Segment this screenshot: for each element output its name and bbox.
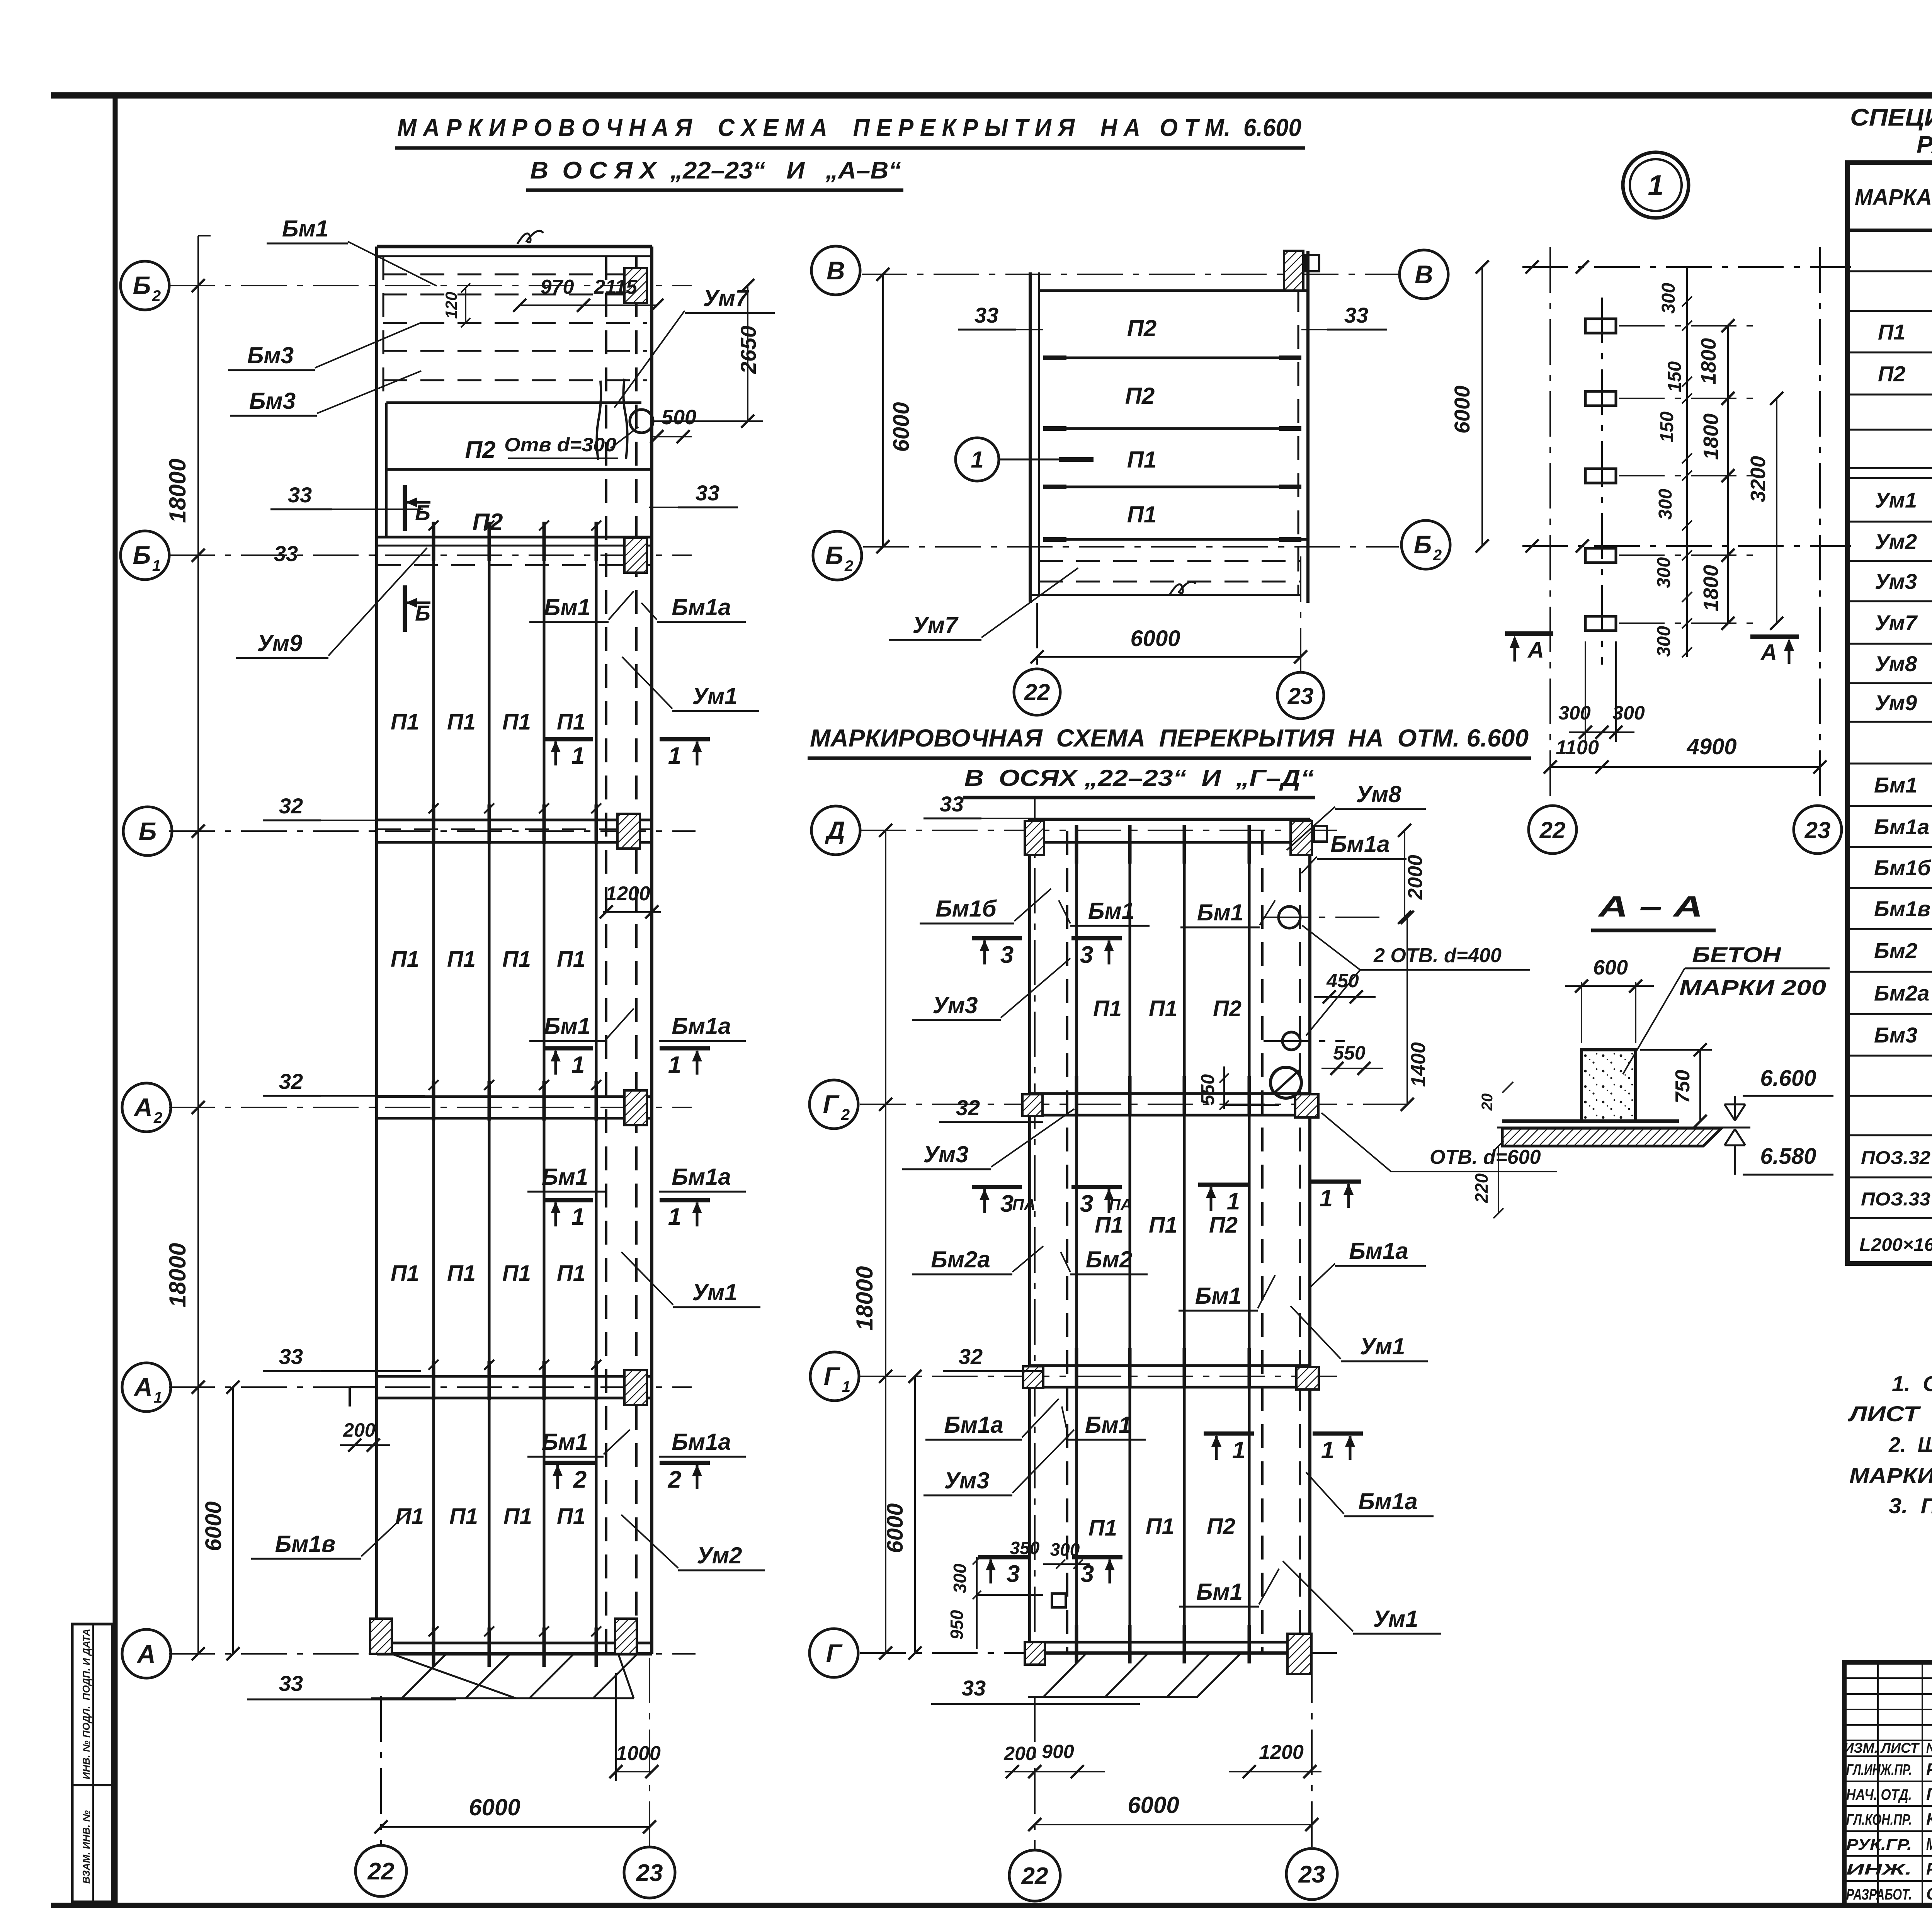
- plan2 col axis dashdot left: [1034, 796, 1036, 1653]
- axis line G: [860, 1652, 1341, 1654]
- svg-text:6000: 6000: [1130, 626, 1180, 651]
- svg-text:РЫЖАК: РЫЖАК: [1926, 1760, 1932, 1779]
- svg-text:1: 1: [571, 1052, 585, 1078]
- vertical dim 6000 A1-A: [232, 1387, 234, 1654]
- svg-text:Бм1б: Бм1б: [1874, 855, 1931, 880]
- beam band A bottom: [377, 1642, 652, 1645]
- dim 600 over column: [1581, 982, 1582, 1043]
- axis circle G1: [810, 1352, 859, 1401]
- svg-text:А: А: [133, 1372, 153, 1401]
- svg-text:РАЗРАБОТ.: РАЗРАБОТ.: [1846, 1886, 1912, 1903]
- svg-text:3: 3: [1080, 1190, 1093, 1217]
- svg-text:4900: 4900: [1686, 734, 1736, 759]
- svg-text:А: А: [1527, 638, 1544, 663]
- svg-text:33: 33: [288, 483, 312, 507]
- svg-text:Ум8: Ум8: [1875, 651, 1917, 676]
- svg-text:6000: 6000: [889, 402, 914, 452]
- svg-text:18000: 18000: [165, 459, 190, 523]
- monolithic strip Um1 dashed verticals: [605, 256, 607, 1654]
- section marks 1-1 row2: [543, 1046, 593, 1051]
- beam band B: [377, 819, 652, 821]
- svg-text:ГЛАЗУНОВ: ГЛАЗУНОВ: [1926, 1785, 1932, 1804]
- axis circle B1: [121, 531, 169, 580]
- axis line B2 mid: [863, 546, 1399, 548]
- plan2 joint ticks: [1075, 825, 1078, 864]
- vertical dim line 18000 plan2: [885, 830, 886, 1653]
- vertical dim 6000 diagram: [1481, 267, 1483, 546]
- column axis 22 plan2: [1034, 1696, 1036, 1850]
- svg-text:Б: Б: [133, 271, 151, 299]
- svg-text:Бм1б: Бм1б: [935, 896, 997, 922]
- svg-text:П2: П2: [472, 509, 503, 536]
- plan2 hatched blocks: [1025, 821, 1044, 855]
- svg-text:Ум1: Ум1: [1373, 1606, 1418, 1632]
- svg-text:СПЕЦИФИКАЦИЯ ЭЛЕМЕНТОВ К М: СПЕЦИФИКАЦИЯ ЭЛЕМЕНТОВ К МАРКИРОВОЧНЫМ С…: [1850, 104, 1932, 131]
- dim 970 / 2115: [520, 304, 657, 306]
- svg-text:750: 750: [1672, 1070, 1694, 1104]
- svg-text:Бм1а: Бм1а: [1330, 831, 1390, 857]
- axis circle A: [122, 1629, 171, 1678]
- column circle 22 diagram: [1529, 806, 1577, 854]
- svg-text:Бм1а: Бм1а: [1874, 815, 1929, 839]
- svg-text:33: 33: [279, 1671, 303, 1696]
- section mark B upper: [403, 485, 407, 531]
- axis 23 vertical dashdot diagram: [1819, 247, 1821, 806]
- svg-text:П2: П2: [1213, 996, 1242, 1021]
- beam band A2: [377, 1095, 652, 1098]
- svg-text:П1: П1: [447, 1261, 476, 1286]
- svg-text:2: 2: [844, 558, 853, 575]
- axis line B2 dim diagram: [1522, 545, 1851, 547]
- svg-text:П1: П1: [447, 947, 476, 972]
- svg-text:Бм3: Бм3: [249, 388, 296, 414]
- svg-text:Ум2: Ум2: [1875, 529, 1917, 554]
- svg-text:Бм1а: Бм1а: [672, 1013, 731, 1039]
- axis line G2: [860, 1104, 1406, 1105]
- svg-text:600: 600: [1593, 956, 1628, 979]
- svg-text:32: 32: [959, 1344, 983, 1369]
- svg-text:Б: Б: [415, 500, 430, 525]
- title block small grid left: [1844, 1677, 1932, 1679]
- detail bubble 1: [1623, 152, 1689, 218]
- svg-text:Бм3: Бм3: [247, 342, 294, 368]
- column circle 23 diagram: [1794, 806, 1842, 854]
- svg-text:200: 200: [343, 1419, 376, 1441]
- title block signature rows: [1844, 1781, 1932, 1782]
- svg-text:3: 3: [1000, 1190, 1014, 1217]
- svg-text:550: 550: [1198, 1074, 1218, 1105]
- plan2 outline: [1030, 818, 1310, 821]
- slab hatched band: [1502, 1128, 1721, 1146]
- svg-text:220: 220: [1471, 1173, 1492, 1203]
- svg-text:А: А: [136, 1639, 156, 1668]
- svg-text:Ум7: Ум7: [913, 612, 959, 638]
- svg-text:3: 3: [1080, 942, 1093, 968]
- section marks 1-1 row1: [543, 737, 593, 742]
- title block frame: [1844, 1662, 1932, 1905]
- svg-text:П1: П1: [1127, 502, 1157, 527]
- svg-text:ИНЖ.: ИНЖ.: [1846, 1861, 1912, 1878]
- svg-text:П1: П1: [1088, 1515, 1117, 1541]
- blocks centerline: [1601, 298, 1603, 665]
- svg-text:Бм2а: Бм2а: [1874, 981, 1929, 1005]
- beam band B1: [377, 536, 652, 539]
- svg-text:L200×16: L200×16: [1859, 1235, 1932, 1255]
- svg-text:Бм1: Бм1: [1197, 900, 1243, 925]
- svg-text:33: 33: [975, 303, 998, 327]
- svg-text:1: 1: [1321, 1437, 1334, 1464]
- svg-text:П1: П1: [391, 709, 419, 735]
- hatched column blocks: [624, 268, 647, 303]
- svg-text:Бм1: Бм1: [544, 1013, 590, 1039]
- top zone Bm3 dashed beams: [383, 274, 647, 276]
- svg-text:А: А: [1760, 640, 1777, 665]
- svg-text:РЕКУН: РЕКУН: [1926, 1860, 1932, 1879]
- svg-text:150: 150: [1665, 361, 1685, 392]
- svg-text:Ум3: Ум3: [923, 1141, 969, 1167]
- svg-text:ИНВ. № ПОДЛ. ПОДП. И ДАТА: ИНВ. № ПОДЛ. ПОДП. И ДАТА: [80, 1629, 92, 1779]
- svg-text:А: А: [133, 1093, 153, 1121]
- svg-text:950: 950: [947, 1610, 967, 1639]
- plan2 hatch below G: [1043, 1653, 1087, 1697]
- svg-text:Бм1а: Бм1а: [1349, 1238, 1408, 1264]
- svg-text:П2: П2: [1127, 315, 1157, 341]
- svg-text:П1: П1: [391, 1261, 419, 1286]
- svg-text:Ум9: Ум9: [1875, 690, 1917, 715]
- section marks 3-3 top: [972, 936, 1022, 940]
- svg-text:КАЛЬЧУК: КАЛЬЧУК: [1926, 1810, 1932, 1829]
- svg-text:1: 1: [1227, 1188, 1240, 1215]
- svg-text:300: 300: [1654, 626, 1674, 657]
- svg-text:Ум9: Ум9: [257, 630, 303, 656]
- axis 22 vertical dashdot: [1549, 247, 1551, 806]
- svg-text:Б: Б: [133, 541, 151, 569]
- svg-text:№ ДОКУМЕНТА: № ДОКУМЕНТА: [1926, 1740, 1932, 1756]
- svg-text:300: 300: [950, 1563, 970, 1593]
- svg-text:ЛИСТ: ЛИСТ: [1880, 1740, 1920, 1756]
- axis circle A2: [122, 1083, 171, 1132]
- svg-text:2: 2: [841, 1106, 850, 1123]
- svg-text:2: 2: [152, 287, 161, 304]
- svg-text:П1: П1: [557, 947, 585, 972]
- svg-text:1: 1: [668, 1204, 681, 1230]
- vertical dim 6000 G1-G: [914, 1376, 916, 1653]
- svg-text:22: 22: [1024, 679, 1050, 705]
- svg-text:ПОЗ.33: ПОЗ.33: [1861, 1189, 1930, 1210]
- svg-text:П1: П1: [395, 1504, 424, 1529]
- section marks 3PA and 1 mid: [972, 1185, 1022, 1189]
- svg-text:Бм1: Бм1: [1196, 1579, 1243, 1605]
- plate joint ticks on beams: [432, 522, 435, 561]
- svg-text:18000: 18000: [852, 1266, 878, 1331]
- svg-text:1800: 1800: [1699, 565, 1723, 611]
- svg-text:П1: П1: [502, 1261, 531, 1286]
- block center dashdot stubs: [1619, 325, 1762, 327]
- plan2 plate divider verticals: [1075, 831, 1078, 1653]
- dim 6000 topmid bottom: [1037, 656, 1301, 658]
- svg-text:ИЗМ.: ИЗМ.: [1844, 1740, 1878, 1756]
- svg-text:450: 450: [1326, 970, 1359, 992]
- svg-text:Бм1а: Бм1а: [1358, 1488, 1418, 1514]
- svg-text:ПА: ПА: [1012, 1196, 1036, 1214]
- svg-text:300: 300: [1558, 702, 1591, 724]
- svg-text:Г: Г: [826, 1639, 843, 1667]
- svg-text:П1: П1: [502, 709, 531, 735]
- dim 1100 4900: [1550, 766, 1820, 768]
- svg-text:1: 1: [152, 557, 161, 574]
- svg-text:120: 120: [442, 292, 460, 319]
- svg-text:23: 23: [1287, 683, 1314, 709]
- svg-text:П1: П1: [449, 1504, 478, 1529]
- section mark B lower: [403, 585, 407, 632]
- svg-text:2. ШВЫ МЕЖДУ ПАНЕЛЯМИ ЗАП: 2. ШВЫ МЕЖДУ ПАНЕЛЯМИ ЗАПОЛНЯЮТСЯ БЕТОНО…: [1888, 1432, 1932, 1457]
- svg-text:2: 2: [153, 1109, 162, 1126]
- svg-text:Ум3: Ум3: [1875, 569, 1917, 594]
- vertical dim 6000 topmid: [882, 274, 884, 547]
- dim 1400: [1406, 917, 1408, 1104]
- section marks 1-1 lower right: [1204, 1432, 1254, 1436]
- svg-text:Ум1: Ум1: [692, 1279, 738, 1305]
- svg-text:Г: Г: [823, 1090, 840, 1118]
- plate strips horizontals: [1043, 357, 1301, 359]
- svg-text:1: 1: [971, 447, 983, 473]
- axis circle B: [123, 807, 172, 855]
- svg-text:МАРКА: МАРКА: [1855, 185, 1932, 210]
- dim 6000 plan2 bottom: [1035, 1824, 1312, 1825]
- svg-text:6.600: 6.600: [1760, 1066, 1816, 1091]
- svg-text:1: 1: [154, 1389, 162, 1406]
- svg-text:ЛИСТ КМ-14.: ЛИСТ КМ-14.: [1847, 1401, 1932, 1426]
- svg-text:Бм1а: Бм1а: [672, 594, 731, 620]
- svg-text:3: 3: [1007, 1561, 1020, 1587]
- svg-text:П1: П1: [1093, 996, 1122, 1021]
- axis circle G2: [810, 1080, 858, 1129]
- dim 300 300 bottom: [1569, 731, 1634, 733]
- svg-text:П1: П1: [1127, 447, 1157, 473]
- svg-text:2: 2: [573, 1466, 587, 1493]
- dim 3200: [1776, 398, 1777, 623]
- svg-text:В: В: [1415, 260, 1433, 289]
- top-middle plan outline: [1029, 272, 1032, 603]
- svg-text:1. ОГРАЖДЕНИЕ И МЕТАЛЛИЧЕСК: 1. ОГРАЖДЕНИЕ И МЕТАЛЛИЧЕСКИЕ БАЛКИ СМОТ…: [1892, 1371, 1932, 1396]
- svg-text:Ум1: Ум1: [1875, 488, 1917, 512]
- svg-text:6000: 6000: [469, 1794, 520, 1820]
- column circle 23: [624, 1847, 675, 1898]
- svg-text:33: 33: [274, 541, 298, 566]
- svg-text:23: 23: [636, 1860, 663, 1886]
- Um7 break outline in plate: [597, 381, 601, 460]
- dim 500: [652, 436, 692, 437]
- concrete column section: [1582, 1050, 1636, 1121]
- svg-text:300: 300: [1658, 283, 1679, 314]
- svg-text:Бм1: Бм1: [1085, 1412, 1131, 1438]
- svg-text:1: 1: [571, 1204, 585, 1230]
- svg-text:2 ОТВ. d=400: 2 ОТВ. d=400: [1373, 944, 1502, 967]
- svg-text:П1: П1: [502, 947, 531, 972]
- sleeve blocks: [1585, 319, 1616, 333]
- svg-text:ОТВ. d=600: ОТВ. d=600: [1430, 1146, 1541, 1168]
- svg-text:В ОСЯХ „22–23“ И „Г–Д“: В ОСЯХ „22–23“ И „Г–Д“: [964, 765, 1314, 791]
- svg-text:500: 500: [662, 406, 696, 429]
- svg-text:ГЛ.КОН.ПР.: ГЛ.КОН.ПР.: [1846, 1811, 1912, 1828]
- svg-text:НАЧ. ОТД.: НАЧ. ОТД.: [1846, 1786, 1912, 1803]
- left plan outline: [377, 245, 652, 248]
- svg-text:ПА: ПА: [1109, 1196, 1133, 1214]
- svg-text:РАСПОЛОЖЕННЫМ НА ДАННОМ: РАСПОЛОЖЕННЫМ НА ДАННОМ ЛИСТЕ: [1917, 131, 1932, 158]
- svg-text:П1: П1: [447, 709, 476, 735]
- svg-text:СИНИЦЫНА: СИНИЦЫНА: [1926, 1884, 1932, 1903]
- svg-text:3: 3: [1081, 1561, 1094, 1587]
- svg-text:Бм1: Бм1: [1195, 1283, 1242, 1309]
- axis line A: [169, 1653, 696, 1655]
- svg-text:33: 33: [279, 1344, 303, 1369]
- svg-text:Ум8: Ум8: [1356, 781, 1402, 807]
- svg-text:2650: 2650: [736, 326, 760, 374]
- svg-text:Бм2: Бм2: [1874, 939, 1917, 963]
- small rect detail: [1052, 1594, 1066, 1607]
- hatched block top right: [1284, 251, 1303, 291]
- svg-text:Бм3: Бм3: [1874, 1023, 1917, 1047]
- Um7 dashed strip below B2: [1039, 560, 1301, 562]
- plate dividers verticals: [432, 555, 435, 1654]
- plan2 inner dashed verticals: [1066, 831, 1068, 1653]
- axis circle B2 left mid: [813, 531, 862, 580]
- svg-text:Ум7: Ум7: [703, 285, 750, 311]
- svg-text:300: 300: [1654, 557, 1674, 588]
- svg-text:А – А: А – А: [1597, 890, 1703, 923]
- svg-text:6000: 6000: [883, 1503, 908, 1553]
- svg-text:1: 1: [668, 743, 681, 769]
- section marks 3-3 lower: [978, 1555, 1028, 1560]
- svg-text:1: 1: [842, 1378, 850, 1395]
- left margin stamp strip: [72, 1624, 112, 1902]
- svg-text:1: 1: [1648, 169, 1663, 201]
- svg-text:1: 1: [1232, 1437, 1245, 1464]
- svg-text:2115: 2115: [594, 276, 638, 298]
- dim 300/150 labels: [1686, 267, 1688, 657]
- axis line B: [169, 830, 696, 832]
- svg-text:Б: Б: [825, 541, 844, 570]
- axis line V dim diagram: [1522, 266, 1851, 268]
- svg-text:Бм1: Бм1: [542, 1164, 588, 1190]
- axis line D: [860, 830, 1341, 831]
- svg-text:Бм1: Бм1: [1874, 773, 1917, 797]
- svg-text:Бм1: Бм1: [544, 594, 590, 620]
- svg-text:6000: 6000: [1450, 386, 1474, 434]
- svg-text:33: 33: [1344, 303, 1368, 327]
- svg-text:Бм1: Бм1: [542, 1429, 588, 1455]
- svg-text:П1: П1: [1146, 1514, 1174, 1539]
- svg-text:В: В: [827, 256, 845, 285]
- column axis 22 topmid: [1036, 603, 1038, 669]
- svg-text:2: 2: [1433, 547, 1442, 564]
- dim 120 vertical: [465, 288, 466, 323]
- svg-text:П2: П2: [1209, 1213, 1238, 1238]
- svg-text:П2: П2: [465, 437, 495, 463]
- plate joint end ticks: [1043, 355, 1066, 360]
- svg-text:550: 550: [1333, 1042, 1366, 1064]
- svg-text:Бм1а: Бм1а: [944, 1412, 1003, 1438]
- axis circle G: [810, 1629, 858, 1677]
- spec table grid: [1847, 163, 1932, 1264]
- vertical dim 18000 left: [197, 236, 199, 1654]
- column circle 22 topmid: [1014, 669, 1060, 715]
- axis circle V left: [811, 246, 860, 295]
- svg-text:Бм1а: Бм1а: [672, 1164, 731, 1190]
- svg-text:970: 970: [541, 276, 574, 298]
- svg-text:Ум1: Ум1: [692, 683, 738, 709]
- svg-text:ВЗАМ. ИНВ. №: ВЗАМ. ИНВ. №: [80, 1810, 92, 1884]
- axis circle D: [811, 806, 860, 855]
- axis circle A1: [122, 1363, 171, 1412]
- svg-text:300: 300: [1655, 489, 1676, 520]
- svg-text:Ум2: Ум2: [697, 1543, 742, 1568]
- svg-text:3: 3: [1000, 942, 1014, 968]
- svg-text:33: 33: [696, 481, 719, 505]
- column circle 22 plan2: [1009, 1850, 1060, 1901]
- plate P2 horizontal joints: [386, 401, 641, 404]
- svg-text:350: 350: [1010, 1538, 1040, 1558]
- axis line A1: [169, 1386, 692, 1388]
- svg-text:32: 32: [956, 1095, 980, 1120]
- svg-text:Бм2: Бм2: [1086, 1247, 1132, 1272]
- svg-text:33: 33: [962, 1676, 986, 1700]
- hole circles right strip: [1264, 917, 1379, 918]
- svg-text:РУК.ГР.: РУК.ГР.: [1846, 1836, 1912, 1853]
- svg-text:П2: П2: [1878, 362, 1905, 386]
- svg-text:Ум3: Ум3: [933, 992, 978, 1018]
- svg-text:Ум7: Ум7: [1875, 611, 1918, 635]
- dim chain 1800s: [1727, 326, 1729, 623]
- svg-text:2: 2: [668, 1466, 681, 1493]
- svg-text:П1: П1: [557, 709, 585, 735]
- svg-text:П1: П1: [557, 1261, 585, 1286]
- svg-text:1100: 1100: [1556, 736, 1599, 759]
- svg-text:1000: 1000: [616, 1742, 661, 1765]
- svg-text:300: 300: [1612, 702, 1645, 724]
- axis line G1: [860, 1376, 1341, 1377]
- svg-text:150: 150: [1657, 412, 1677, 442]
- svg-text:Ум3: Ум3: [944, 1468, 990, 1493]
- svg-text:22: 22: [1539, 817, 1566, 843]
- hole Otv d300 circle: [630, 410, 653, 433]
- dim 1200: [603, 911, 661, 913]
- column axis 23 topmid: [1300, 556, 1301, 672]
- svg-text:23: 23: [1298, 1861, 1325, 1888]
- axis line B1: [169, 554, 692, 556]
- dim 2650 right: [747, 286, 748, 421]
- svg-text:Г: Г: [824, 1362, 840, 1390]
- plan2 beam bands: [1030, 841, 1310, 844]
- dim 750: [1699, 1050, 1701, 1121]
- svg-text:3. ПЛИТЫ СВЯЗАТЬ ЗА ПЕТЛ: 3. ПЛИТЫ СВЯЗАТЬ ЗА ПЕТЛИ ПРОВОЛОКОЙ Ф6М…: [1889, 1493, 1932, 1518]
- svg-text:БЕТОН: БЕТОН: [1692, 942, 1782, 967]
- column axis 23 plan2: [1311, 1658, 1313, 1849]
- column axis 23 left plan: [649, 1658, 650, 1847]
- axis line B2: [169, 285, 692, 286]
- svg-text:1800: 1800: [1697, 338, 1720, 384]
- svg-text:Д: Д: [825, 816, 845, 845]
- svg-text:1200: 1200: [1259, 1741, 1304, 1764]
- svg-text:П1: П1: [1149, 996, 1177, 1021]
- axis circle V right: [1400, 250, 1448, 299]
- dim 6000 bottom left plan: [381, 1826, 650, 1828]
- svg-text:В О С Я Х „22–23“ И „А–В: В О С Я Х „22–23“ И „А–В“: [530, 157, 901, 184]
- svg-text:Бм1в: Бм1в: [1874, 896, 1930, 921]
- svg-text:Б: Б: [415, 601, 430, 625]
- svg-text:1: 1: [571, 743, 585, 769]
- svg-text:М А Р К И Р О В О Ч Н А Я С: М А Р К И Р О В О Ч Н А Я С Х Е М А П Е …: [397, 114, 1301, 141]
